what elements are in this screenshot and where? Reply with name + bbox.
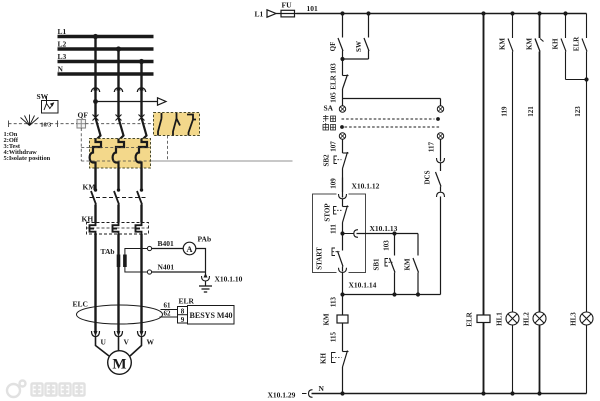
contactor KM pole A	[94, 188, 97, 191]
supply arrow	[267, 10, 276, 17]
svg-text:X10.1.12: X10.1.12	[352, 182, 380, 191]
linkage gray bar	[104, 160, 293, 162]
svg-text:V: V	[124, 338, 130, 347]
svg-text:FU: FU	[282, 1, 293, 10]
SA contact circle left top	[339, 106, 345, 112]
trip unit phase B	[113, 139, 124, 169]
terminal circle N401	[147, 270, 151, 274]
svg-text:START: START	[316, 247, 324, 270]
svg-text:L1: L1	[255, 10, 264, 19]
wire ELR column	[483, 14, 485, 316]
svg-text:N: N	[58, 65, 64, 74]
selector SA top wire	[343, 99, 441, 106]
connector motor V	[115, 331, 123, 337]
wire arrow feed line	[96, 101, 158, 103]
svg-text:KM: KM	[404, 258, 412, 270]
drawout connector phase B top	[114, 88, 122, 92]
contact QF aux	[342, 14, 344, 38]
svg-text:BESYS M40: BESYS M40	[190, 311, 233, 320]
node dot on phase A arrow line	[93, 99, 98, 104]
contact DCS NO	[440, 163, 442, 171]
ground	[205, 281, 207, 286]
KH heater phase A	[90, 223, 96, 235]
breaker QF pole A	[93, 115, 99, 121]
terminal circle B401	[147, 246, 151, 250]
wire phase B QF to KM	[117, 168, 119, 189]
svg-text:ELR: ELR	[179, 297, 195, 306]
wire N	[312, 393, 587, 395]
thermal relay KH box dashed	[87, 223, 149, 235]
label shoudong	[323, 115, 336, 122]
aux contact 3	[187, 115, 196, 136]
wire phase A drop from L1	[94, 37, 96, 118]
aux contact 1	[158, 113, 162, 136]
wire 117	[440, 139, 442, 157]
svg-text:SB2: SB2	[323, 154, 331, 167]
SA contact circle left bottom	[339, 133, 345, 139]
svg-text:N: N	[319, 384, 325, 393]
svg-text:QF: QF	[329, 42, 337, 52]
svg-text:107: 107	[330, 141, 338, 152]
svg-text:KH: KH	[320, 353, 328, 364]
svg-text:117: 117	[428, 141, 436, 152]
svg-text:115: 115	[330, 331, 338, 342]
node dots on feed line	[340, 11, 344, 15]
contact KM aux NO	[417, 234, 419, 256]
watermark	[7, 381, 85, 398]
svg-text:B401: B401	[158, 239, 175, 248]
wire through fuse	[276, 13, 297, 15]
svg-text:PAb: PAb	[198, 235, 212, 244]
svg-text:KM: KM	[499, 38, 507, 50]
SA position row 1	[342, 118, 435, 120]
wire 101 feed line	[297, 13, 587, 15]
svg-text:ELR: ELR	[330, 74, 338, 89]
relay BESYS M40 box	[188, 306, 235, 325]
node dot phase A on L1	[93, 34, 98, 39]
svg-text:121: 121	[527, 106, 535, 117]
connector X10.1.12	[339, 194, 347, 199]
wire 103	[342, 59, 344, 76]
arrowhead	[158, 98, 167, 105]
wire DCS down to node	[440, 197, 442, 295]
svg-text:113: 113	[330, 296, 338, 307]
ammeter PAb	[183, 242, 196, 255]
svg-text:X10.1.29: X10.1.29	[268, 391, 296, 400]
svg-text:U: U	[101, 338, 107, 347]
connector motor W	[138, 331, 146, 337]
aux contact 2	[173, 113, 180, 136]
svg-text:SA: SA	[324, 104, 334, 113]
svg-text:16/3: 16/3	[41, 122, 52, 128]
svg-text:STOP: STOP	[324, 203, 332, 222]
svg-text:ELC: ELC	[73, 300, 88, 309]
position legend text	[4, 131, 51, 162]
wire 105	[342, 89, 344, 99]
node dot phase B on L2	[116, 46, 121, 51]
svg-text:X10.1.14: X10.1.14	[349, 281, 377, 290]
node dot phase C on L3	[139, 59, 144, 64]
wire ammeter to corner	[196, 249, 206, 273]
connector X10.1.13	[343, 233, 355, 235]
wire KH down x3	[94, 234, 96, 332]
trip unit phase A	[90, 139, 101, 169]
svg-text:A: A	[186, 244, 193, 254]
svg-text:N401: N401	[158, 263, 175, 272]
svg-text:HL1: HL1	[496, 312, 504, 326]
svg-text:HL3: HL3	[570, 312, 578, 326]
wire rejoin	[343, 58, 369, 60]
wire KM to KH x3	[94, 205, 96, 223]
KH inner dashed	[87, 227, 149, 229]
terminal block 8/9	[178, 307, 188, 324]
contactor KM pole C	[140, 188, 143, 191]
contact KM lamp1	[512, 14, 514, 39]
svg-text:KM: KM	[526, 38, 534, 50]
svg-text:103: 103	[383, 240, 391, 251]
contactor KM pole B	[117, 188, 120, 191]
wire X10.1.13 branch	[357, 233, 419, 235]
svg-text:5:Isolate position: 5:Isolate position	[4, 155, 51, 162]
wire 115	[342, 323, 344, 352]
breaker QF pole B	[116, 115, 122, 121]
svg-text:X10.1.10: X10.1.10	[215, 275, 243, 284]
svg-text:119: 119	[501, 106, 509, 117]
local control box	[313, 194, 366, 273]
selector position fan	[21, 115, 39, 126]
svg-text:62: 62	[164, 310, 172, 318]
dashed linkage line to selector	[9, 123, 78, 125]
svg-text:QF: QF	[78, 111, 89, 120]
svg-text:123: 123	[574, 106, 582, 117]
svg-text:L1: L1	[58, 27, 67, 36]
svg-text:X10.1.13: X10.1.13	[370, 224, 398, 233]
breaker QF pole C	[139, 115, 145, 121]
svg-text:DCS: DCS	[424, 170, 432, 184]
breaker QF operating mechanism box	[77, 120, 86, 129]
KM linkage dashed	[90, 197, 148, 199]
wire phase C QF to KM	[140, 168, 142, 189]
svg-text:M: M	[112, 357, 126, 373]
svg-text:W: W	[147, 338, 155, 347]
drawout connector phase A top	[91, 88, 99, 92]
node line to coil	[343, 294, 441, 296]
motor M	[108, 351, 132, 375]
svg-text:9: 9	[181, 316, 185, 324]
svg-text:KM: KM	[83, 183, 96, 192]
connector below DCS	[437, 192, 445, 197]
SA contact circle right top	[437, 106, 443, 112]
SA position row 2	[345, 126, 441, 128]
CT secondary wire bottom	[125, 267, 147, 272]
wire phase B drop from L2	[117, 49, 119, 118]
svg-text:L2: L2	[58, 40, 67, 49]
contact SW aux	[368, 14, 370, 38]
svg-text:KM: KM	[323, 313, 331, 325]
contact KH lamp3	[565, 14, 567, 39]
svg-text:111: 111	[330, 224, 338, 234]
motor leads	[96, 337, 110, 357]
svg-text:101: 101	[307, 4, 319, 13]
busbar N	[58, 72, 154, 75]
wire phase A QF to KM	[94, 168, 96, 189]
wire B401	[152, 248, 184, 250]
dashed linkage QF box to trip units	[80, 128, 82, 161]
aux linkage drop	[167, 136, 169, 162]
svg-text:109: 109	[330, 178, 338, 189]
trip unit highlight box	[90, 139, 151, 169]
wire 109	[342, 169, 344, 198]
svg-text:ELR: ELR	[466, 311, 474, 326]
contact ELR lamp3	[586, 14, 588, 39]
wire N401	[152, 271, 206, 273]
svg-text:SW: SW	[355, 41, 363, 52]
svg-text:SB1: SB1	[373, 258, 381, 271]
svg-text:L3: L3	[58, 52, 67, 61]
svg-text:TAb: TAb	[101, 247, 115, 256]
wire 103 branch	[394, 234, 396, 256]
contact KM lamp2	[539, 14, 541, 39]
wire 61	[161, 309, 178, 311]
dashed linkage through trip units	[90, 147, 151, 149]
wire 62	[160, 316, 178, 318]
busbar L3	[58, 60, 154, 63]
svg-text:KH: KH	[552, 38, 560, 49]
wire 107	[342, 139, 344, 153]
switch SW box	[42, 101, 59, 114]
trip unit phase C	[136, 139, 147, 169]
KH heater phase B	[113, 223, 119, 235]
wire phase C drop from L3	[140, 62, 142, 118]
wire 111	[342, 223, 344, 251]
connector X10.1.14	[339, 268, 347, 273]
busbar L1	[58, 35, 154, 38]
wire to N	[342, 367, 344, 394]
svg-text:HL2: HL2	[523, 312, 531, 326]
connector above DCS	[437, 158, 445, 163]
auxiliary contacts highlight box	[154, 113, 200, 136]
drawout connector phase C top	[137, 88, 145, 92]
label zidong	[323, 123, 336, 130]
svg-text:61: 61	[164, 302, 172, 310]
SA contact circle right bottom	[437, 133, 443, 139]
svg-text:105: 105	[330, 92, 338, 103]
svg-text:103: 103	[330, 63, 338, 74]
svg-text:ELR: ELR	[573, 36, 581, 51]
busbar L2	[58, 47, 154, 50]
CT secondary wire top	[125, 249, 147, 255]
node dot 111	[340, 231, 344, 235]
fuse FU	[281, 10, 295, 17]
svg-text:8: 8	[181, 308, 185, 316]
KH heater phase C	[136, 223, 142, 235]
connector X10.1.10	[205, 272, 207, 276]
zero sequence CT ellipse	[77, 305, 163, 324]
connector motor U	[92, 331, 100, 337]
current transformer TAb bars	[117, 255, 121, 268]
